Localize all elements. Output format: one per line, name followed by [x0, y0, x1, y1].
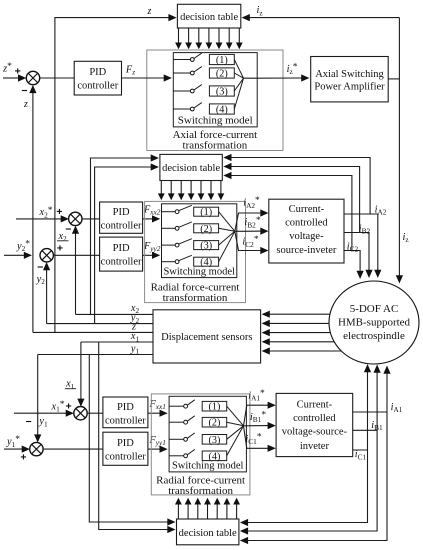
- wire electrospindle to sensors x2: [270, 313, 330, 315]
- svg-text:Power Amplifier: Power Amplifier: [314, 82, 385, 93]
- branch box (1): [194, 207, 219, 216]
- wire y1 feedback vertical to y1 junction: [37, 355, 39, 437]
- switch S2 contact: [162, 227, 176, 229]
- wire y1* input: [4, 448, 22, 450]
- 5-DOF AC HMB-supported electrospindle: [329, 281, 419, 364]
- switch S2 contact: [169, 421, 184, 423]
- radial force-current transformation outer box (bottom): [151, 394, 250, 495]
- wire iA2 feedback into middle decision table: [231, 158, 370, 215]
- wire iA1* to inverter: [244, 405, 269, 426]
- svg-text:HMB-supported: HMB-supported: [338, 317, 411, 329]
- branch box (4): [209, 104, 234, 114]
- wire z feedback vertical to z junction: [32, 92, 34, 333]
- radial switching model inner box (middle): [162, 204, 237, 278]
- wire y2* input: [4, 254, 24, 256]
- wire x2 into middle decision table: [91, 158, 152, 314]
- svg-text:controlled: controlled: [293, 413, 336, 424]
- svg-text:controller: controller: [105, 416, 146, 427]
- wire iB2 output to electrospindle: [344, 233, 369, 272]
- switch S3 contact: [173, 90, 190, 92]
- PID controller (x1): [103, 397, 148, 428]
- wire amplifier output to iz net: [388, 78, 399, 80]
- wire z* input: [3, 77, 19, 79]
- wire y2 into middle decision table: [95, 167, 151, 324]
- wire branch (3) to summing node: [219, 231, 235, 245]
- wire branch (2) to summing node: [234, 73, 243, 78]
- wire branch (1) to summing node: [227, 406, 244, 426]
- wire branch (1) to summing node: [219, 212, 235, 232]
- svg-text:(1): (1): [200, 207, 212, 218]
- wire x2 feedback vertical: [75, 232, 77, 314]
- wire Fxx2 to radial switching model: [143, 218, 153, 220]
- decision table (axial): [177, 4, 240, 28]
- switch S1 contact: [169, 405, 184, 407]
- decision table (radial 2): [160, 154, 222, 180]
- wire branch (4) to summing node: [227, 426, 244, 456]
- wire branch (2) to summing node: [219, 228, 235, 231]
- wire iC1* to inverter: [244, 426, 269, 449]
- wire y2 feedback vertical: [46, 268, 48, 323]
- svg-text:(2): (2): [200, 224, 212, 235]
- switch S4 contact: [169, 455, 184, 457]
- wire electrospindle to sensors x1: [270, 341, 335, 343]
- svg-text:z: z: [147, 6, 152, 17]
- PID controller (axial): [74, 61, 121, 95]
- wire sensor output y2: [47, 323, 153, 325]
- svg-text:z: z: [23, 99, 28, 110]
- branch box (2): [202, 417, 227, 427]
- wire x1* input: [14, 412, 66, 414]
- wire branch (3) to summing node: [227, 426, 244, 440]
- switch S4 contact: [173, 108, 190, 110]
- wire iB2* to inverter: [235, 230, 261, 232]
- wire electrospindle to sensors y1: [270, 350, 342, 352]
- Current-controlled voltage-source-inveter box (middle): [269, 199, 344, 263]
- svg-text:decision table: decision table: [162, 163, 220, 174]
- svg-text:−: −: [26, 416, 32, 428]
- wire iz feedback into top decision table (from right): [250, 17, 400, 19]
- wire Fz to axial switching model: [122, 77, 165, 79]
- wire x2 junction to PID controller: [82, 218, 100, 220]
- wire sensor output x2: [76, 313, 154, 315]
- wire iC2 output to electrospindle: [344, 251, 360, 273]
- svg-text:(2): (2): [209, 418, 221, 429]
- switch S1 contact: [173, 59, 190, 61]
- svg-text:(3): (3): [200, 241, 212, 252]
- wire Fyy1 to radial switching model: [148, 448, 160, 450]
- svg-text:voltage-: voltage-: [289, 231, 324, 242]
- branch box (1): [202, 401, 227, 411]
- wire iB1* to inverter: [244, 425, 269, 427]
- svg-text:−: −: [37, 262, 43, 274]
- svg-text:voltage-source-: voltage-source-: [282, 427, 348, 438]
- wire iA2 output to electrospindle: [344, 214, 378, 272]
- branch box (2): [194, 224, 219, 233]
- svg-text:+: +: [15, 66, 21, 78]
- wire iB2 feedback into middle decision table: [231, 167, 359, 233]
- svg-text:controller: controller: [105, 452, 146, 463]
- branch box (1): [209, 54, 234, 64]
- svg-text:PID: PID: [113, 207, 130, 218]
- wire branch (4) to summing node: [234, 78, 243, 109]
- switch S2 contact: [173, 72, 190, 74]
- wire y1 junction to PID controller: [43, 448, 103, 450]
- svg-text:+: +: [57, 243, 63, 255]
- wire branch (4) to summing node: [219, 231, 235, 261]
- branch box (3): [209, 86, 234, 96]
- svg-text:(1): (1): [209, 402, 221, 413]
- svg-text:+: +: [20, 452, 26, 464]
- wire iC2 feedback into middle decision table: [231, 176, 352, 251]
- control bus: bottom decision table to radial switching model (7 arrows): [177, 503, 179, 519]
- svg-text:transformation: transformation: [163, 292, 228, 304]
- wire iC2* to inverter: [235, 231, 261, 250]
- switch S1 contact: [162, 211, 176, 213]
- PID controller (y1): [103, 432, 148, 465]
- decision table (radial 1): [177, 519, 239, 545]
- control bus: middle decision table to radial switching model (7 arrows): [160, 181, 162, 195]
- svg-text:PID: PID: [117, 402, 134, 413]
- svg-text:(1): (1): [216, 55, 228, 66]
- axial switching model inner box: [173, 53, 257, 127]
- wire sensor output z: [33, 331, 153, 333]
- wire iA1 output to electrospindle and decision table: [353, 372, 387, 413]
- svg-text:+: +: [56, 206, 62, 218]
- svg-text:Axial Switching: Axial Switching: [315, 69, 384, 80]
- PID controller (y2): [100, 237, 143, 271]
- switch S3 contact: [169, 438, 184, 440]
- svg-text:5-DOF AC: 5-DOF AC: [350, 303, 399, 315]
- svg-text:controller: controller: [101, 221, 142, 232]
- svg-text:controlled: controlled: [285, 218, 328, 229]
- radial switching model inner box (bottom): [169, 396, 246, 472]
- wire x1 junction to PID controller: [87, 412, 103, 414]
- svg-text:source-inveter: source-inveter: [276, 245, 337, 256]
- svg-text:(4): (4): [200, 257, 212, 268]
- svg-text:controller: controller: [101, 257, 142, 268]
- svg-text:decision table: decision table: [179, 528, 237, 539]
- wire iA2* to inverter: [235, 213, 261, 231]
- wire y2 junction to PID controller: [53, 254, 99, 256]
- PID controller (x2): [100, 202, 143, 233]
- svg-text:controller: controller: [77, 81, 118, 92]
- wire x2* input: [16, 218, 61, 220]
- Displacement sensors box: [153, 310, 261, 363]
- wire iz* to axial power amplifier: [244, 77, 302, 79]
- svg-text:−: −: [21, 85, 27, 97]
- wire electrospindle to sensors z: [270, 332, 331, 334]
- wire iC1 output to electrospindle and decision table: [353, 370, 368, 450]
- svg-text:PID: PID: [117, 438, 134, 449]
- svg-text:decision table: decision table: [180, 12, 238, 23]
- wire branch (3) to summing node: [234, 78, 243, 91]
- wire x1 feedback vertical to x1 junction: [80, 342, 82, 400]
- Axial Switching Power Amplifier box: [311, 57, 389, 102]
- wire branch (1) to summing node: [234, 60, 243, 79]
- wire sensor output x1: [81, 341, 153, 343]
- wire electrospindle to sensors y2: [270, 322, 330, 324]
- wire branch (2) to summing node: [227, 422, 244, 426]
- svg-text:PID: PID: [89, 67, 106, 78]
- wire iz vertical feedback net: [398, 18, 400, 276]
- svg-text:Current-: Current-: [289, 204, 325, 215]
- wire z reference into top decision table: [55, 18, 169, 333]
- branch box (3): [194, 241, 219, 250]
- axial force-current transformation outer box: [147, 50, 283, 151]
- wire Fxx1 to radial switching model: [148, 412, 160, 414]
- radial force-current transformation outer box (middle): [145, 201, 246, 302]
- switch S4 contact: [162, 261, 176, 263]
- branch box (3): [202, 435, 227, 445]
- wire iB1 output to electrospindle and decision table: [353, 371, 377, 431]
- branch box (2): [209, 68, 234, 78]
- svg-text:(2): (2): [216, 69, 228, 80]
- wire sensor output y1: [38, 354, 153, 356]
- svg-text:(4): (4): [209, 451, 221, 462]
- switch S3 contact: [162, 244, 176, 246]
- svg-text:(3): (3): [216, 87, 228, 98]
- svg-text:(3): (3): [209, 435, 221, 446]
- svg-text:(4): (4): [216, 105, 228, 116]
- svg-text:Switching model: Switching model: [178, 114, 253, 126]
- branch box (4): [202, 451, 227, 461]
- svg-text:PID: PID: [113, 243, 130, 254]
- svg-text:inveter: inveter: [300, 441, 330, 452]
- svg-text:transformation: transformation: [183, 140, 248, 152]
- svg-text:transformation: transformation: [168, 485, 233, 497]
- svg-text:Displacement sensors: Displacement sensors: [161, 332, 252, 343]
- svg-text:Current-: Current-: [297, 399, 333, 410]
- Current-controlled voltage-source-inveter box (bottom): [276, 393, 353, 456]
- branch box (4): [194, 257, 219, 266]
- wire Fyy2 to radial switching model: [143, 254, 153, 256]
- wire z junction to PID controller: [40, 77, 74, 79]
- svg-text:+: +: [66, 400, 72, 412]
- wire x1 to bottom decision table: [99, 342, 168, 530]
- wire y1 to bottom decision table: [89, 355, 167, 523]
- svg-text:electrospindle: electrospindle: [343, 330, 405, 342]
- control bus: decision table to axial switching model (7 arrows): [178, 28, 180, 44]
